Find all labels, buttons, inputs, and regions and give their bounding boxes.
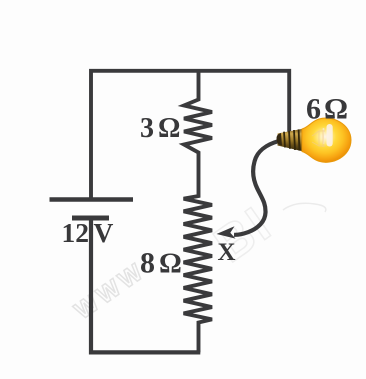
svg-text:8: 8 <box>140 247 155 280</box>
svg-text:X: X <box>218 239 236 266</box>
svg-text:WWW: WWW <box>70 257 151 325</box>
svg-text:3Ω: 3Ω <box>140 113 180 144</box>
svg-text:6Ω: 6Ω <box>306 93 348 126</box>
svg-text:12V: 12V <box>62 217 114 248</box>
svg-text:Ω: Ω <box>159 249 182 280</box>
